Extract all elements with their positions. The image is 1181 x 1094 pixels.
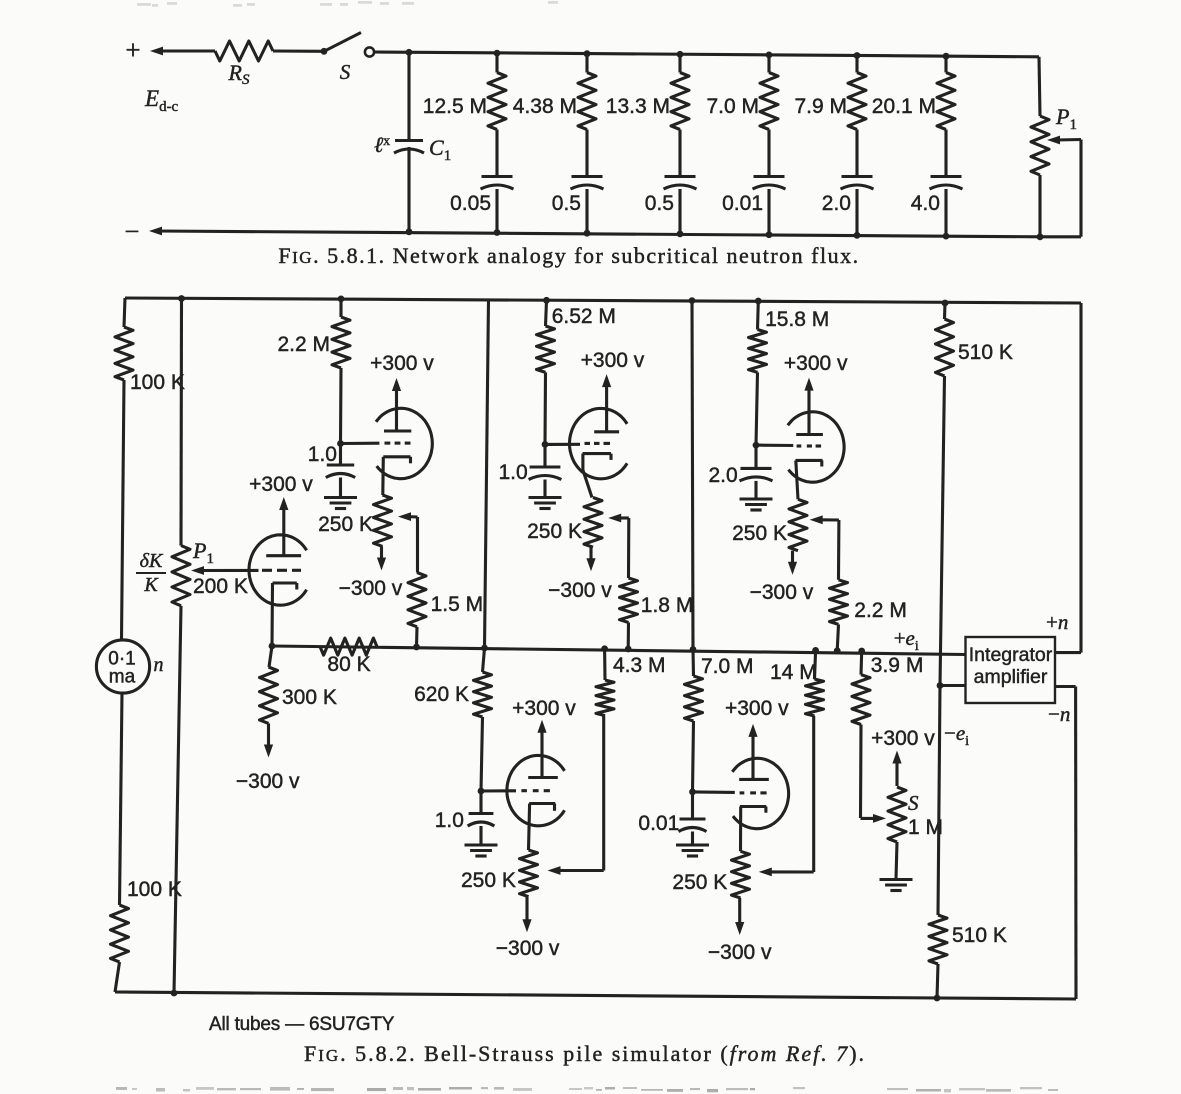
+300v supply arrow V4 [804,378,813,435]
bottom rail Fig 5.8.2 [115,992,1076,999]
label 7.0M [701,655,754,678]
wiper arrow into S pot [861,814,887,823]
capacitor 2.0 (stage 3) [740,445,773,499]
caption Fig 5.8.2 [304,1041,866,1066]
triode V2 envelope [376,408,432,478]
wiper arrow 250K (stage 1) [398,512,418,521]
cathode V6 [740,807,766,852]
svg-text:+300 v: +300 v [249,473,313,496]
-300v arrow below 300K [264,723,273,757]
svg-text:1.0: 1.0 [498,461,527,484]
svg-text:250 K: 250 K [461,869,516,892]
label 12.5 M [423,95,487,118]
label All tubes [209,1014,395,1035]
label C1 [429,135,451,164]
wire wiper to 1.8M [627,518,630,578]
junction C1 top [406,49,413,56]
svg-text:−300 v: −300 v [236,770,300,793]
label 6.52M [552,305,616,328]
junction stage 3 grid node [753,442,760,449]
label n (meter) [154,654,164,676]
svg-text:+300 v: +300 v [725,697,789,720]
label 100K bottom-left [127,878,182,901]
label 1.8M [641,594,694,617]
junction -ei node [937,682,944,689]
label 1.5M [431,593,484,616]
svg-text:2.0: 2.0 [822,192,851,215]
label -n [1048,702,1070,726]
capacitor 1.0 (lower stage 1) [468,791,495,845]
ground (lower stage 2 cap) [676,845,709,856]
-300v arrow below 250K (stage 1) [377,546,386,570]
wire C1 branch [407,52,410,232]
label 100K top-left [130,371,185,394]
svg-text:K: K [143,574,159,596]
svg-text:2.2 M: 2.2 M [277,333,330,356]
wiper arrow P1 (Fig 5.8.1) [1047,136,1081,145]
potentiometer 250K (stage 3) [789,499,807,550]
junction lower stage 1 grid node [478,788,485,795]
label 4.38 M [513,95,577,118]
label l^x [374,132,390,157]
svg-text:FIG. 5.8.2. Bell-Strauss pile: FIG. 5.8.2. Bell-Strauss pile simulator … [304,1041,866,1066]
svg-text:14 M: 14 M [770,661,817,684]
label dK/K [136,550,166,596]
scan artifact cut-off text top [137,1,558,7]
label 1.0 (lower stage 1) [435,809,464,832]
resistor 2.2M (stage 3 feedback) [830,580,848,651]
svg-text:1.5 M: 1.5 M [431,593,484,616]
resistor 1.8M [620,578,638,649]
svg-text:−300 v: −300 v [548,579,612,602]
RC branch 2: resistor 4.38 M and capacitor 0.5 [571,50,604,236]
wire wiper to 1.5M [416,517,419,573]
ground (stage 2 cap) [529,498,562,509]
label S [340,60,351,84]
RC branch 6: resistor 20.1 M and capacitor 4.0 [930,53,963,240]
potentiometer S 1M [888,787,906,842]
label 510K bottom [952,924,1007,947]
label +300v (V1) [249,473,313,496]
label 1.0 (stage 1) [308,443,337,466]
wiper arrow 250K (stage 2) [608,514,629,523]
second vertical wire upper [179,299,183,546]
column wire stage3 divider / 7.0M [689,297,697,653]
grid dashes V5 [521,789,550,792]
meter 0.1 ma [96,640,149,693]
-300v arrow below 250K (lower stage 2) [735,898,744,935]
junction 15.8M top [755,298,762,305]
label 2.0 [822,192,851,215]
triode V4 plate [796,433,823,436]
integrator amplifier box [966,637,1056,703]
left vertical wire (top segment) [124,298,125,327]
resistor 2.2M (stage 1 grid) [332,296,350,444]
label 0.5 [645,192,674,215]
potentiometer 250K (lower stage 2) [732,851,750,898]
label +300v (V3) [581,349,645,372]
grid wire V6 [693,790,735,794]
junction second vertical bottom [171,990,178,997]
bottom rail Fig 5.8.1 with left arrow [125,217,1040,243]
grid wire V5 [481,789,516,792]
junction stage 2 grid node [542,441,549,448]
label 0.05 [450,192,491,215]
label 80K [327,653,370,676]
label RS [228,60,250,88]
wire +n output [1055,303,1081,653]
svg-text:250 K: 250 K [318,513,373,536]
svg-text:0.01: 0.01 [638,812,679,835]
+300v supply arrow V5 [537,720,546,778]
capacitor 0.01 (lower stage 2) [679,792,707,845]
label P1 (Fig 5.8.1) [1055,104,1077,133]
+300v supply arrow V2 [392,378,401,431]
potentiometer 250K (stage 1) [374,495,392,546]
label P1 (Fig 5.8.2) [192,538,214,567]
svg-text:All tubes — 6SU7GTY: All tubes — 6SU7GTY [209,1014,395,1035]
label 14M [770,661,817,684]
junction switch hinge [321,48,328,55]
junction 2.2M mid rail [834,647,841,654]
label -300v (V1) [236,770,300,793]
second vertical wire lower [174,606,181,993]
label 250K (lower stage 1) [461,869,516,892]
svg-text:3.9 M: 3.9 M [871,654,924,677]
capacitor 1.0 (stage 1) [326,444,355,498]
column wire stage2 lower / 620K [483,648,485,672]
cathode V2 [383,457,411,495]
top rail Fig 5.8.2 [125,298,1081,303]
label 250K (stage 3) [732,522,787,545]
svg-text:12.5 M: 12.5 M [423,95,487,118]
grid dashes V2 [385,442,411,445]
svg-text:+: + [125,35,140,65]
svg-text:1.0: 1.0 [435,809,464,832]
cathode V3 [583,454,612,498]
svg-text:15.8 M: 15.8 M [765,308,829,331]
svg-text:+300 v: +300 v [581,349,645,372]
junction second vertical top [178,295,185,302]
svg-text:7.0 M: 7.0 M [706,95,759,118]
label 2.2M (stage 3) [854,599,907,622]
cathode V4 [796,460,823,499]
svg-text:δK: δK [140,550,164,572]
svg-text:amplifier: amplifier [974,666,1048,688]
grid wire V2 [341,442,380,445]
svg-text:1.0: 1.0 [308,443,337,466]
label 0.5 [552,192,581,215]
resistor 15.8M [749,301,767,445]
wire RS to switch [273,49,324,52]
resistor 300K [260,646,278,723]
svg-text:–: – [125,217,139,243]
top rail Fig 5.8.1 [374,52,1039,57]
resistor RS [215,41,273,61]
label 2.2M (stage 1) [277,333,330,356]
triode V5 envelope [507,755,565,825]
svg-text:−300 v: −300 v [339,577,403,600]
potentiometer 250K (lower stage 1) [520,850,538,897]
svg-text:n: n [154,654,164,676]
triode V1 plate [266,554,301,557]
left vertical wire to meter [122,380,125,640]
switch S blade [324,33,361,52]
svg-text:250 K: 250 K [732,522,787,545]
junction 3.9M mid rail [858,648,865,655]
svg-text:S: S [908,791,919,815]
ground (lower stage 1 cap) [465,845,498,856]
wire S pot to ground [896,842,897,879]
svg-text:+n: +n [1046,610,1068,634]
label 7.9 M [794,95,847,118]
wiper arrow 250K (lower stage 1) [548,866,604,875]
capacitor C1 [394,141,424,154]
svg-text:−300 v: −300 v [496,937,560,960]
+300v supply arrow S pot [892,751,901,787]
label -ei [944,721,969,749]
label -300v (stage 3) [750,581,814,604]
cathode V5 [529,804,556,851]
label 13.3 M [606,95,670,118]
grid dashes V4 [797,444,822,447]
label +ei [894,626,919,654]
grid wire V3 [545,443,580,446]
junction lower stage 2 grid node [689,789,696,796]
cathode V1 [272,583,297,646]
label 20.1 M [872,95,936,118]
svg-text:7.0 M: 7.0 M [701,655,754,678]
junction stage 1 grid node [337,440,344,447]
label E d-c source [144,86,179,115]
junction 510K top [942,300,949,307]
node + terminal (positive input, Fig 5.8.1) [125,35,140,65]
triode V3 plate [594,430,619,433]
wire right return of P1 [1040,140,1081,237]
triode V6 envelope [732,758,788,828]
junction 1.8M mid rail [625,646,632,653]
RC branch 3: resistor 13.3 M and capacitor 0.5 [664,51,697,237]
mid rail +ei [272,646,966,655]
svg-text:510 K: 510 K [958,341,1013,364]
svg-text:4.3 M: 4.3 M [613,654,666,677]
label +300v (V5) [512,697,576,720]
svg-text:200 K: 200 K [193,575,248,598]
resistor 3.9M [852,651,870,818]
label 3.9M [871,654,924,677]
resistor 7.0M [685,650,703,792]
RC branch 4: resistor 7.0 M and capacitor 0.01 [753,52,786,239]
svg-text:250 K: 250 K [672,871,727,894]
triode V1 envelope [249,535,307,605]
svg-text:+300 v: +300 v [784,352,848,375]
label 200K [193,575,248,598]
svg-text:1.8 M: 1.8 M [641,594,694,617]
label 510K top [958,341,1013,364]
+300v supply arrow V3 [602,374,611,432]
svg-text:2.0: 2.0 [708,464,737,487]
svg-text:+300 v: +300 v [512,697,576,720]
svg-text:S: S [340,60,351,84]
label 4.0 [911,192,940,215]
switch S open terminal [365,47,374,56]
ground (stage 1 cap) [324,498,357,509]
svg-text:100 K: 100 K [127,878,182,901]
label 0.01 (lower stage 2) [638,812,679,835]
resistor 6.52M [537,300,555,444]
triode V6 plate [739,778,769,781]
label -300v (stage 2) [548,579,612,602]
svg-text:2.2 M: 2.2 M [854,599,907,622]
+300v supply arrow V1 plate [279,497,288,556]
svg-text:+300 v: +300 v [871,727,935,750]
left vertical wire below meter [120,693,123,905]
ground (stage 3 cap) [740,499,773,510]
svg-text:510 K: 510 K [952,924,1007,947]
RC branch 5: resistor 7.9 M and capacitor 2.0 [841,52,874,239]
capacitor 1.0 (stage 2) [529,444,562,497]
svg-text:−300 v: −300 v [750,581,814,604]
label 620K [414,683,469,706]
svg-text:0.05: 0.05 [450,192,491,215]
wire -n output [1055,687,1076,1000]
-300v arrow below 250K (stage 2) [586,547,595,571]
resistor 100K top-left [115,327,133,380]
wiper arrow 250K (stage 3) [810,515,839,524]
grid dashes V3 [585,442,611,445]
svg-text:−300 v: −300 v [708,941,772,964]
label +300v (V6) [725,697,789,720]
resistor 4.3M [596,645,614,715]
label 1.0 (stage 2) [498,461,527,484]
svg-text:100 K: 100 K [130,371,185,394]
label +300v (V2) [370,352,434,375]
label S (pot) [908,791,919,815]
wire 510K to -ei node [940,376,945,686]
resistor 510K bottom [929,915,947,998]
svg-text:+300 v: +300 v [370,352,434,375]
resistor 100K bottom-left [111,905,129,962]
wire wiper to 4.3M [602,716,605,871]
label +n [1046,610,1068,634]
triode V5 plate [528,776,558,779]
svg-text:FIG. 5.8.1. Network analogy fo: FIG. 5.8.1. Network analogy for subcriti… [278,243,859,268]
svg-text:0.01: 0.01 [722,192,763,215]
triode V2 plate [384,429,411,432]
junction V1 cathode node [269,643,276,650]
svg-text:7.9 M: 7.9 M [794,95,847,118]
svg-text:80 K: 80 K [327,653,370,676]
grid dashes V6 [740,791,767,794]
label 0.01 [722,192,763,215]
-300v arrow below 250K (lower stage 1) [522,897,531,933]
wire with left arrow from Rs to + terminal [150,47,215,56]
label 300K [282,686,337,709]
triode V3 envelope [570,408,628,478]
ground (S pot) [880,880,913,891]
svg-text:Integrator: Integrator [969,644,1053,666]
svg-text:6.52 M: 6.52 M [552,305,616,328]
label 250K (stage 2) [527,520,582,543]
junction C1 bottom [406,228,413,235]
potentiometer P1 200K [172,546,190,606]
-300v arrow below 250K (stage 3) [788,551,797,575]
column wire stage1/2 divider [485,299,489,648]
label 15.8M [765,308,829,331]
junction 6.52M top [543,297,550,304]
svg-text:0.5: 0.5 [645,192,674,215]
label +300v (V4) [784,352,848,375]
label 2.0 (stage 3) [708,464,737,487]
left vertical wire to bottom rail [115,962,120,992]
svg-text:620 K: 620 K [414,683,469,706]
wire wiper to 14M [812,716,815,872]
junction divider mid rail [481,645,488,652]
svg-text:0.5: 0.5 [552,192,581,215]
resistor 1.5M [408,573,426,648]
svg-text:20.1 M: 20.1 M [872,95,936,118]
svg-text:−n: −n [1048,702,1070,726]
RC branch 1: resistor 12.5 M and capacitor 0.05 [481,50,514,236]
wiper arrow 250K (lower stage 2) [759,868,814,877]
grid dashes V1 [262,569,301,572]
potentiometer P1 (Fig 5.8.1) [1031,57,1049,240]
resistor 510K top [936,303,954,376]
svg-text:4.38 M: 4.38 M [513,95,577,118]
junction 510K bottom rail [934,995,941,1002]
svg-text:ma: ma [109,667,136,688]
svg-text:250 K: 250 K [527,520,582,543]
wire wiper to 2.2M [837,520,841,580]
svg-text:300 K: 300 K [282,686,337,709]
label 7.0 M [706,95,759,118]
resistor 620K [474,672,492,791]
caption Fig 5.8.1 [278,243,859,268]
+300v supply arrow V6 [748,724,757,780]
resistor 14M [806,647,824,716]
wire -ei node to 510K bottom [938,686,940,916]
label 250K (stage 1) [318,513,373,536]
junction 1.5M mid rail [413,644,420,651]
label 4.3M [613,654,666,677]
label -300v (stage 1) [339,577,403,600]
label -300v (lower stage 1) [496,937,560,960]
svg-text:13.3 M: 13.3 M [606,95,670,118]
svg-text:4.0: 4.0 [911,192,940,215]
label -300v (lower stage 2) [708,941,772,964]
grid wire V4 [756,444,793,447]
scan artifact cut-off text bottom [116,1087,1058,1092]
label 1M [908,816,943,839]
grid wire V1 with wiper arrow into P1 [191,566,259,575]
potentiometer 250K (stage 2) [584,498,602,548]
triode V4 envelope [788,412,844,482]
label 250K (lower stage 2) [672,871,727,894]
wire -ei to integrator [940,684,966,687]
resistor 80K [320,638,377,655]
label +300v (S pot) [871,727,935,750]
